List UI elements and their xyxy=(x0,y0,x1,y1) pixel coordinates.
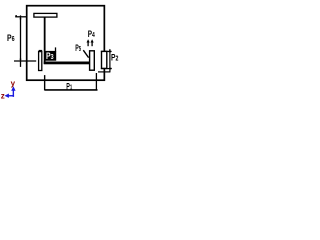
label P3 (inverted box) xyxy=(44,51,56,61)
dimension P2 arrow down xyxy=(109,68,112,71)
dimension P1 left extension xyxy=(44,75,46,90)
P4 up-arrow 1 xyxy=(87,39,90,42)
dimension P2 line xyxy=(109,49,111,72)
dimension P2 arrow up xyxy=(109,49,112,52)
P4 up-arrow 2 xyxy=(91,39,94,42)
P3 box anchor stub xyxy=(55,47,57,51)
dimension P6 extension tick top xyxy=(15,16,27,18)
wall plate top edge extension xyxy=(101,50,112,52)
beam end plate xyxy=(90,51,95,70)
dimension P6 line xyxy=(20,15,22,67)
dimension P6 extension tick bottom xyxy=(14,60,36,62)
beam xyxy=(44,62,90,65)
wall plate bottom edge extension xyxy=(101,68,112,70)
dimension P2 leg xyxy=(98,71,110,73)
left plate top weld blob xyxy=(39,50,42,52)
dimension P1 line xyxy=(45,89,98,91)
outer frame xyxy=(27,6,105,81)
wall plate (over right wall) xyxy=(102,51,107,68)
top plate (T-bar) xyxy=(34,13,57,17)
tick end bump xyxy=(15,15,17,16)
P5 leader line xyxy=(83,50,88,57)
dimension P6 arrow up xyxy=(20,16,22,19)
svg-text:y: y xyxy=(11,79,16,88)
axis icon: y axis arrow (up, blue) xyxy=(12,90,14,97)
column (T-stem) xyxy=(44,18,46,65)
left stiffener plate xyxy=(39,51,42,70)
axis icon: z axis arrow (left, blue) xyxy=(8,95,14,97)
dimension P6 arrow down xyxy=(20,59,22,62)
dimension P1 right extension xyxy=(95,73,97,90)
svg-text:z: z xyxy=(1,91,5,100)
